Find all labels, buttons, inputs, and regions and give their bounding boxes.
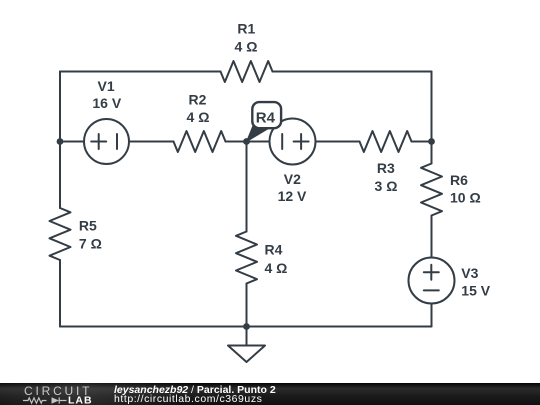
- footer bar sheen: [0, 383, 540, 405]
- svg-text:15 V: 15 V: [461, 282, 490, 298]
- wire R2 to node B: [226, 141, 247, 143]
- V2 plus sign: [294, 134, 309, 149]
- voltage source V1 circle: [84, 119, 129, 164]
- logo resistor squiggle and diode: [23, 397, 67, 403]
- footer bar gradient overlay: [0, 383, 540, 405]
- node A junction dot: [57, 138, 64, 145]
- svg-text:4 Ω: 4 Ω: [265, 260, 288, 276]
- node C junction dot: [428, 138, 435, 145]
- svg-text:R2: R2: [189, 91, 207, 107]
- wire node B to V2: [247, 141, 270, 143]
- footer bar: [0, 383, 540, 405]
- wire node C to R6: [431, 142, 433, 164]
- svg-text:4 Ω: 4 Ω: [235, 39, 258, 55]
- wire V1 to R2: [129, 141, 174, 143]
- svg-text:R5: R5: [79, 217, 97, 233]
- svg-text:R4: R4: [265, 241, 283, 257]
- svg-text:7 Ω: 7 Ω: [79, 235, 102, 251]
- svg-text:10 Ω: 10 Ω: [450, 190, 481, 206]
- svg-text:R4: R4: [256, 110, 276, 127]
- svg-text:LAB: LAB: [68, 394, 93, 405]
- svg-text:V2: V2: [284, 171, 301, 187]
- resistor R4 body: [236, 232, 257, 284]
- svg-text:http://circuitlab.com/c369uzs: http://circuitlab.com/c369uzs: [114, 393, 262, 405]
- wire R5 to node A: [59, 142, 61, 209]
- svg-text:12 V: 12 V: [278, 188, 307, 204]
- V1 minus sign: [116, 134, 118, 149]
- tooltip flag R4 pointer wedge: [247, 125, 269, 142]
- wire node A to V1: [60, 141, 84, 143]
- wire R4 to bottom node D: [246, 284, 248, 327]
- node D junction dot: [243, 323, 250, 330]
- svg-text:R6: R6: [450, 172, 468, 188]
- wire top rail right segment: [273, 71, 432, 73]
- svg-text:R3: R3: [377, 160, 395, 176]
- resistor R2 body: [174, 131, 226, 152]
- wire node B to R4: [246, 142, 248, 232]
- voltage source V2 circle: [270, 119, 316, 165]
- V3 plus sign: [424, 265, 439, 280]
- wire top-left vertical (node A to top rail): [59, 72, 61, 142]
- wire V2 to R3: [316, 141, 360, 143]
- svg-text:4 Ω: 4 Ω: [187, 109, 210, 125]
- wire left vertical lower: [59, 260, 61, 327]
- node B junction dot: [243, 138, 250, 145]
- resistor R6 body: [421, 164, 442, 216]
- wire V3 to bottom rail: [431, 304, 433, 327]
- svg-text:V3: V3: [461, 265, 478, 281]
- ground symbol triangle: [228, 346, 265, 363]
- svg-text:R1: R1: [237, 20, 255, 36]
- svg-text:16 V: 16 V: [92, 95, 121, 111]
- V1 plus sign: [91, 134, 106, 149]
- svg-text:V1: V1: [98, 78, 115, 94]
- wire right vertical upper: [431, 72, 433, 142]
- tooltip flag R4 box: [252, 102, 281, 128]
- resistor R3 body: [360, 131, 412, 152]
- V2 minus sign: [281, 134, 283, 149]
- logo diode triangle: [52, 397, 60, 404]
- wire bottom rail: [60, 326, 432, 328]
- V3 minus sign: [424, 289, 439, 291]
- wire top rail left segment: [60, 71, 221, 73]
- resistor R1 body: [221, 61, 273, 82]
- resistor R5 body: [50, 208, 71, 260]
- voltage source V3 circle: [409, 258, 455, 304]
- ground stub wire: [246, 327, 248, 346]
- svg-text:3 Ω: 3 Ω: [375, 178, 398, 194]
- wire R3 to node C: [412, 141, 432, 143]
- wire R6 to V3: [431, 216, 433, 259]
